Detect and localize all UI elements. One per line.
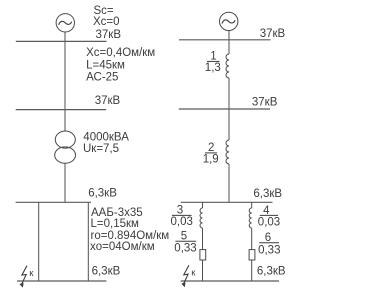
wire branch B bottom <box>251 260 253 281</box>
wire reactor2 to 6.3kV bus <box>228 164 230 202</box>
svg-text:37кВ: 37кВ <box>95 95 121 107</box>
svg-text:1: 1 <box>210 51 216 63</box>
wire branch A top <box>202 202 204 208</box>
label element 3 reactance 0,03 <box>171 205 193 229</box>
svg-text:0,03: 0,03 <box>258 216 280 228</box>
svg-text:1,9: 1,9 <box>203 154 219 166</box>
svg-text:0,33: 0,33 <box>258 244 280 256</box>
bus 37kV left top <box>16 40 107 42</box>
svg-text:6,3кВ: 6,3кВ <box>92 266 121 278</box>
label element 5 resistance 0,33 <box>174 230 196 254</box>
wire branch A middle <box>202 228 204 250</box>
generator G1 <box>56 14 74 32</box>
svg-text:37кВ: 37кВ <box>252 97 278 109</box>
label element 4 reactance 0,03 <box>258 205 280 229</box>
wire branch B middle <box>251 228 253 250</box>
svg-text:6,3кВ: 6,3кВ <box>253 188 282 200</box>
svg-text:Xc=0: Xc=0 <box>93 16 120 28</box>
reactor 4 <box>249 208 252 228</box>
bus 37kV right top <box>179 39 271 41</box>
bus 37kV left second <box>16 109 107 111</box>
svg-text:xо=04Ом/км: xо=04Ом/км <box>90 241 155 253</box>
svg-text:4000кВА: 4000кВА <box>83 132 129 144</box>
bus 6.3kV right bottom <box>181 280 279 282</box>
cable line left conductor <box>38 202 40 281</box>
transformer T1 <box>55 131 76 163</box>
svg-text:L=0,15км: L=0,15км <box>91 218 140 230</box>
wire reactor1 to reactor2 <box>228 78 230 140</box>
bus 6.3kV right <box>181 201 273 203</box>
label element 1 reactance 1,3 <box>205 51 221 75</box>
svg-text:0,03: 0,03 <box>171 216 193 228</box>
bus 37kV right second <box>179 108 270 110</box>
reactor 3 <box>200 208 203 228</box>
short-circuit point K right <box>181 265 196 287</box>
resistor 6 <box>249 250 255 260</box>
wire G2 down <box>228 31 230 54</box>
svg-text:L=45км: L=45км <box>86 59 125 71</box>
label element 2 reactance 1,9 <box>203 142 219 165</box>
svg-text:ro=0.894Ом/км: ro=0.894Ом/км <box>91 230 170 242</box>
svg-text:6,3кВ: 6,3кВ <box>257 266 286 278</box>
svg-text:0,33: 0,33 <box>174 243 196 255</box>
wire G1 to transformer <box>64 32 66 131</box>
svg-text:1,3: 1,3 <box>205 62 221 74</box>
svg-text:3: 3 <box>177 205 183 217</box>
resistor 5 <box>200 250 206 260</box>
generator G2 <box>220 12 238 30</box>
reactor 2 <box>226 140 229 164</box>
svg-text:5: 5 <box>181 230 187 242</box>
svg-text:37кВ: 37кВ <box>96 29 122 41</box>
wire branch A bottom <box>202 260 204 281</box>
svg-text:Xc=0,4Ом/км: Xc=0,4Ом/км <box>86 47 155 59</box>
wire T1 to 6.3kV bus <box>64 163 66 202</box>
svg-text:6: 6 <box>265 232 271 244</box>
svg-text:6,3кВ: 6,3кВ <box>88 188 117 200</box>
bus 6.3kV left bottom <box>17 280 106 282</box>
short-circuit point K left <box>19 266 34 288</box>
label element 6 resistance 0,33 <box>258 232 280 256</box>
svg-text:Uк=7,5: Uк=7,5 <box>83 143 119 155</box>
svg-text:АС-25: АС-25 <box>86 72 118 84</box>
wire branch B top <box>251 202 253 208</box>
cable line right conductor <box>87 202 89 281</box>
svg-text:37кВ: 37кВ <box>260 28 286 40</box>
bus 6.3kV left <box>16 201 91 203</box>
reactor 1 <box>226 54 229 78</box>
